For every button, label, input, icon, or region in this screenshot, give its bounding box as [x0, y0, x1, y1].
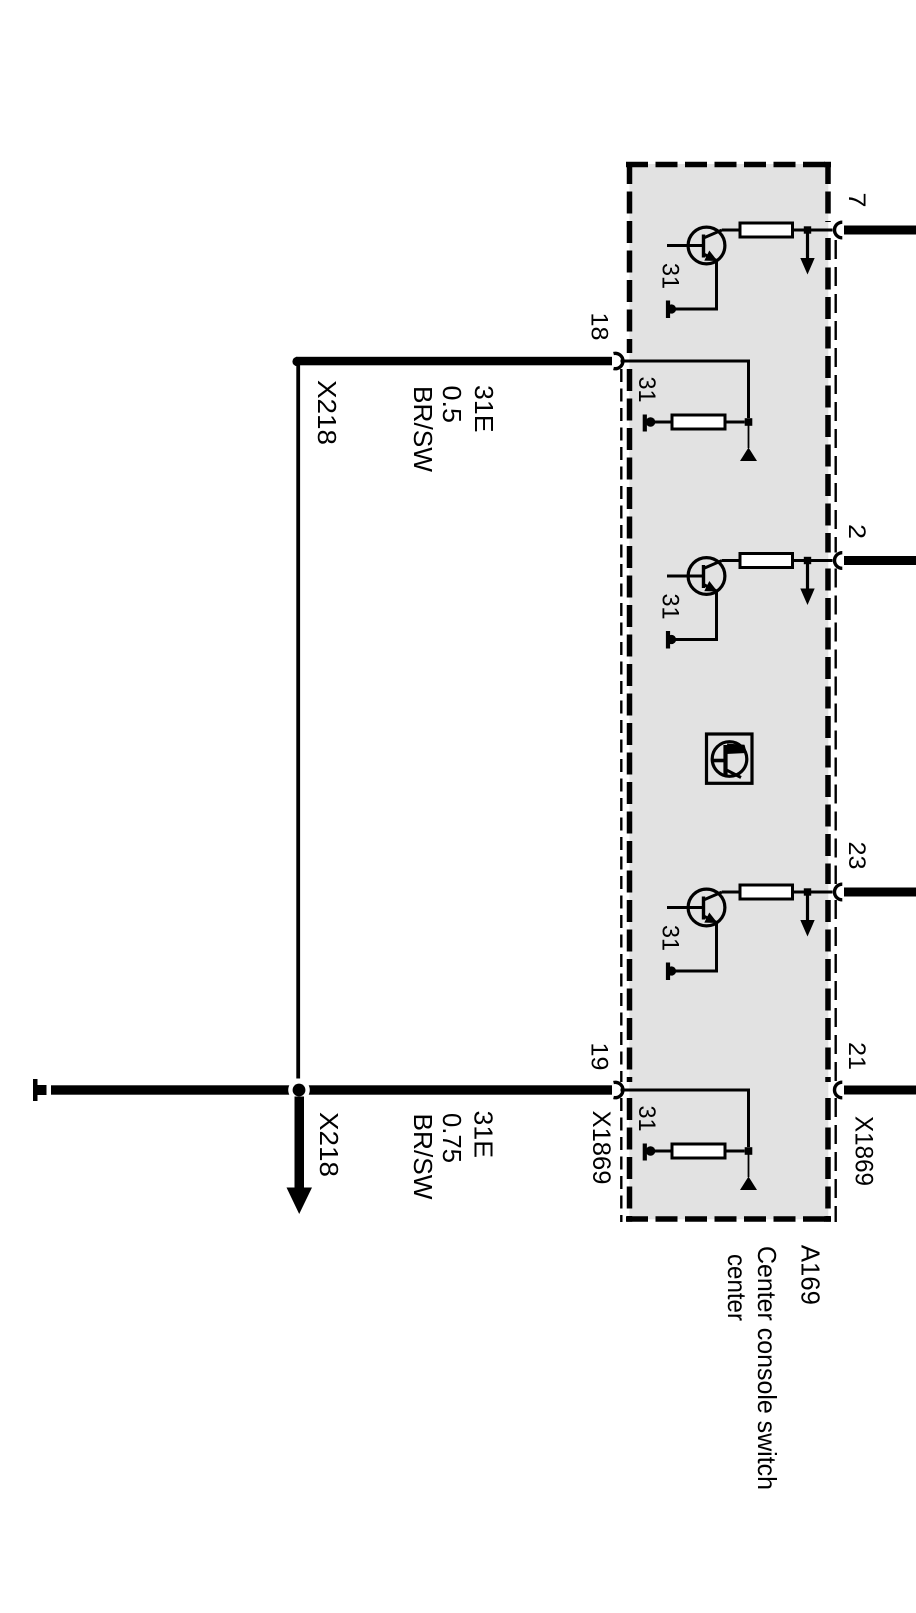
svg-text:X1869: X1869	[850, 1116, 878, 1186]
svg-text:18: 18	[586, 313, 613, 341]
svg-text:BR/SW: BR/SW	[408, 1114, 438, 1200]
svg-text:X1869: X1869	[587, 1111, 615, 1185]
svg-text:31E: 31E	[469, 385, 499, 433]
svg-text:A169: A169	[795, 1245, 825, 1305]
svg-text:31: 31	[633, 1106, 660, 1132]
svg-text:0.75: 0.75	[437, 1113, 467, 1163]
svg-text:31E: 31E	[469, 1111, 499, 1159]
svg-text:2: 2	[843, 524, 870, 539]
svg-text:BR/SW: BR/SW	[408, 386, 438, 472]
svg-text:0.5: 0.5	[437, 386, 467, 424]
svg-text:X218: X218	[314, 1112, 344, 1177]
svg-text:31: 31	[633, 377, 660, 403]
svg-text:Center console switch: Center console switch	[752, 1246, 782, 1490]
svg-text:21: 21	[843, 1042, 870, 1070]
svg-text:center: center	[722, 1254, 752, 1321]
svg-text:31: 31	[657, 594, 684, 620]
svg-text:31: 31	[657, 925, 684, 951]
svg-text:7: 7	[843, 193, 870, 208]
svg-text:19: 19	[586, 1043, 613, 1071]
svg-text:X218: X218	[312, 380, 342, 445]
svg-text:23: 23	[843, 842, 870, 870]
svg-text:31: 31	[657, 263, 684, 289]
